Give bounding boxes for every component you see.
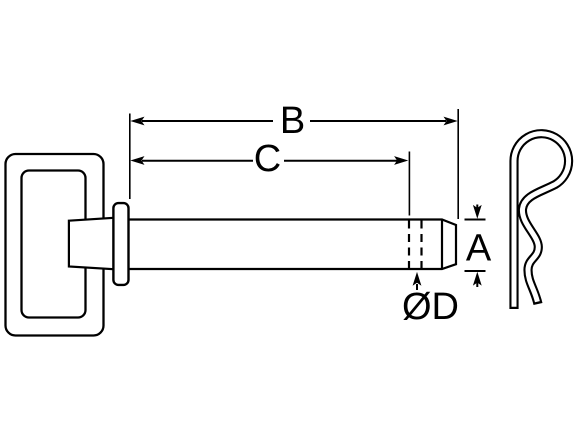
svg-text:ØD: ØD xyxy=(402,286,459,328)
R-clip inner white core xyxy=(514,134,569,307)
dimension label A xyxy=(466,228,492,270)
chamfer start edge xyxy=(441,220,443,270)
R-clip (hairpin cotter) outer stroke xyxy=(514,134,569,309)
svg-text:C: C xyxy=(254,138,281,180)
handle inner ring xyxy=(22,171,86,318)
pin shaft with chamfered tip xyxy=(122,220,456,270)
handle outer ring xyxy=(6,154,104,336)
dimension A bottom tick xyxy=(465,270,486,272)
extension line at hole center xyxy=(408,152,410,216)
dimension A top arrow xyxy=(473,205,482,219)
svg-text:A: A xyxy=(466,228,492,270)
dimension C line xyxy=(130,156,408,165)
dimension label ØD xyxy=(402,286,459,328)
neck (tapered hub between handle and collar) xyxy=(69,217,120,269)
hole diameter arrow xyxy=(413,272,422,290)
extension line at collar face xyxy=(129,114,131,200)
svg-text:B: B xyxy=(280,100,305,142)
extension line at pin tip xyxy=(457,109,459,219)
dimension A top tick xyxy=(465,219,486,221)
hole hidden line left xyxy=(408,221,410,269)
dimension A bottom arrow xyxy=(473,272,482,287)
hole hidden line right xyxy=(420,221,422,269)
dimension B line xyxy=(130,117,457,126)
dimension label B xyxy=(280,100,305,142)
collar (flange) xyxy=(113,203,128,285)
dimension label C xyxy=(254,138,281,180)
